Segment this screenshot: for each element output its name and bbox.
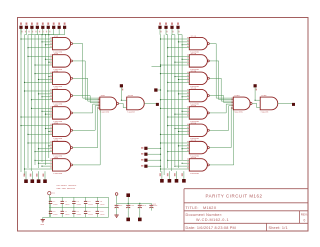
bottom pad C1 (right) (160, 179, 164, 183)
capacitor C5 (96, 197, 98, 201)
input wires gate U6 (left) (21, 125, 53, 127)
NAND gate U16 (right column) (189, 124, 207, 136)
svg-text:100n: 100n (65, 203, 71, 206)
input wires gate U11 (right) (161, 38, 190, 40)
svg-text:U15A: U15A (191, 104, 197, 107)
enable pad P3 (right) (254, 84, 257, 87)
input wires gate U1 (left) (21, 38, 53, 40)
wire U9 output to U10 input (left) (119, 102, 124, 104)
NAND gate U3 (left column) (53, 72, 71, 84)
capacitor C4 (85, 197, 87, 201)
decoupling bank rails (49, 196, 108, 198)
NAND gate U17 (right column) (189, 141, 207, 153)
side input pad S3 (right mesh) (144, 159, 147, 162)
bottom pad B4 (left) (43, 179, 47, 183)
capacitor C10 (96, 208, 98, 212)
bank2 top pad (126, 193, 130, 197)
output wires right column to U19 ladder (210, 43, 217, 45)
svg-text:100n: 100n (88, 213, 94, 216)
input wires gate U18 (right) (168, 159, 190, 161)
svg-text:100n: 100n (53, 213, 59, 216)
svg-text:U11A: U11A (191, 35, 197, 38)
side pad P2 (right mesh) (154, 88, 157, 91)
bulk capacitor C11 (116, 203, 118, 205)
AND gate U20 (right) (260, 97, 278, 110)
svg-text:74AC30N: 74AC30N (100, 111, 110, 114)
input pad K1 (right) (158, 26, 161, 29)
8-input NAND U9 (left) (100, 97, 117, 110)
svg-text:U16A: U16A (191, 121, 197, 124)
svg-text:100n: 100n (100, 213, 106, 216)
left input bus vertical wires (20, 29, 22, 172)
input pad J8 (left) (58, 26, 61, 29)
input pad J5 (left) (41, 26, 44, 29)
bottom pad B1 (left) (24, 179, 28, 183)
NAND gate U7 (left column) (53, 141, 71, 153)
svg-text:74AC30N: 74AC30N (234, 111, 244, 114)
svg-text:U14A: U14A (191, 87, 197, 90)
svg-text:U7A: U7A (54, 139, 59, 142)
output wire and pad OUT1 (left) (144, 102, 156, 104)
svg-text:U17A: U17A (191, 139, 197, 142)
capacitor C7 (61, 208, 63, 212)
input pad J4 (left) (36, 26, 39, 29)
svg-text:100n: 100n (76, 203, 82, 206)
NAND gate U12 (right column) (189, 55, 207, 67)
svg-text:C12: C12 (131, 204, 135, 207)
output wires left column to U9 ladder (73, 43, 83, 45)
ground symbol (bank1) (42, 217, 44, 219)
NAND gate U4 (left column) (53, 89, 71, 101)
svg-text:U19A: U19A (234, 94, 240, 97)
bulk capacitor C14 (150, 203, 152, 205)
title block frame (184, 188, 308, 190)
8-input NAND U19 (right) (233, 97, 250, 110)
svg-text:100n: 100n (88, 203, 94, 206)
NAND gate U11 (right column) (189, 37, 207, 49)
bottom pad B2 (left) (31, 179, 35, 183)
capacitor C2 (61, 197, 63, 201)
svg-text:U20A: U20A (261, 94, 267, 97)
bottom pad C4 (right) (182, 179, 186, 183)
svg-text:C11: C11 (119, 204, 123, 207)
input pad J7 (left) (52, 26, 55, 29)
right input bus vertical wires (160, 35, 162, 172)
svg-text:100n: 100n (100, 203, 106, 206)
input wires gate U14 (right) (168, 90, 190, 92)
svg-text:U8A: U8A (54, 156, 59, 159)
input wires gate U4 (left) (25, 90, 53, 92)
input wires gate U15 (right) (161, 107, 190, 109)
AND gate U10 (left) (127, 97, 145, 110)
input pad K2 (right) (164, 26, 167, 29)
svg-text:W-CD-M162-0-1: W-CD-M162-0-1 (196, 218, 229, 222)
NAND gate U15 (right column) (189, 107, 207, 119)
capacitor C3 (73, 197, 75, 201)
NAND gate U1 (left column) (53, 37, 71, 49)
NAND gate U8 (left column) (53, 159, 71, 171)
svg-text:Date: 1/6/2017 8:23:08 PM: Date: 1/6/2017 8:23:08 PM (186, 226, 236, 230)
bank2 rail (117, 202, 152, 204)
NAND gate U5 (left column) (53, 107, 71, 119)
input wires gate U3 (left) (35, 73, 53, 75)
input wires gate U17 (right) (161, 142, 190, 144)
NAND gate U18 (right column) (189, 159, 207, 171)
svg-text:Sheet: 1/1: Sheet: 1/1 (269, 226, 288, 230)
svg-text:U3A: U3A (54, 69, 59, 72)
input wires gate U7 (left) (28, 142, 53, 144)
svg-text:U18A: U18A (191, 156, 197, 159)
input wires gate U2 (left) (28, 55, 53, 57)
bottom pad C2 (right) (168, 179, 172, 183)
VCC symbol (bank2) (115, 193, 118, 196)
enable pad P1 (left) (120, 84, 123, 87)
bottom pad C3 (right) (175, 179, 179, 183)
left-stub wire at y66 (right mesh) (152, 65, 161, 67)
svg-text:74AC08: 74AC08 (260, 111, 269, 114)
svg-text:C14: C14 (154, 204, 158, 207)
svg-text:C13: C13 (142, 204, 146, 207)
input wires gate U8 (left) (35, 159, 53, 161)
svg-text:74AC30N: 74AC30N (190, 172, 200, 175)
bulk capacitor C12 (127, 203, 129, 205)
svg-text:U5A: U5A (54, 104, 59, 107)
input wires gate U5 (left) (32, 107, 53, 109)
svg-text:U1A: U1A (54, 35, 59, 38)
NAND gate U2 (left column) (53, 55, 71, 67)
input pad K3 (right) (170, 26, 173, 29)
NAND gate U14 (right column) (189, 89, 207, 101)
svg-text:M162X: M162X (203, 206, 217, 210)
svg-text:0: 0 (304, 218, 306, 222)
capacitor C6 (50, 208, 52, 212)
input pad J9 (left) (63, 26, 66, 29)
svg-text:U9A: U9A (101, 94, 106, 97)
capacitor C1 (50, 197, 52, 201)
svg-text:U4A: U4A (54, 87, 59, 90)
output wire and pad OUT2 (right) (278, 102, 292, 104)
svg-text:100n: 100n (53, 203, 59, 206)
input wires gate U16 (right) (168, 125, 190, 127)
side input pad S1 (right mesh) (144, 147, 147, 150)
svg-text:PARITY CIRCUIT M162: PARITY CIRCUIT M162 (205, 194, 262, 199)
NAND gate U6 (left column) (53, 124, 71, 136)
capacitor C9 (85, 208, 87, 212)
svg-text:74AC30N: 74AC30N (53, 172, 63, 175)
side input pad S4 (right mesh) (144, 165, 147, 168)
svg-text:Document Number:: Document Number: (186, 213, 223, 217)
svg-text:U13A: U13A (191, 69, 197, 72)
input wires gate U13 (right) (161, 73, 190, 75)
svg-text:TITLE:: TITLE: (186, 206, 199, 210)
svg-text:GND: GND (41, 223, 45, 226)
svg-text:U6A: U6A (54, 121, 59, 124)
capacitor C8 (73, 208, 75, 212)
svg-text:VCC: VCC (51, 192, 55, 195)
VCC symbol (bank1) (48, 192, 51, 195)
input pad J6 (left) (47, 26, 50, 29)
svg-text:100n: 100n (65, 213, 71, 216)
input pad J3 (left) (30, 26, 33, 29)
svg-text:ONE PER DEVICE: ONE PER DEVICE (57, 187, 76, 190)
svg-text:REV:: REV: (301, 212, 308, 216)
svg-text:U12A: U12A (191, 52, 197, 55)
side input pad S2 (right mesh) (144, 153, 147, 156)
svg-text:U2A: U2A (54, 52, 59, 55)
bottom pad B3 (left) (37, 179, 41, 183)
schematic frame border (18, 18, 309, 232)
bulk capacitor C13 (139, 203, 141, 205)
input pad J2 (left) (25, 26, 28, 29)
svg-text:74AC08: 74AC08 (127, 111, 136, 114)
input pad J1 (left) (19, 26, 22, 29)
svg-text:100n: 100n (76, 213, 82, 216)
input wires gate U12 (right) (168, 55, 190, 57)
NAND gate U13 (right column) (189, 72, 207, 84)
input pad K4 (right) (176, 26, 179, 29)
wire U19 output to U20 input (right) (252, 102, 257, 104)
bank2 bottom pads (126, 218, 130, 222)
ground symbol (bank2) (116, 211, 118, 215)
svg-text:U10A: U10A (128, 94, 134, 97)
